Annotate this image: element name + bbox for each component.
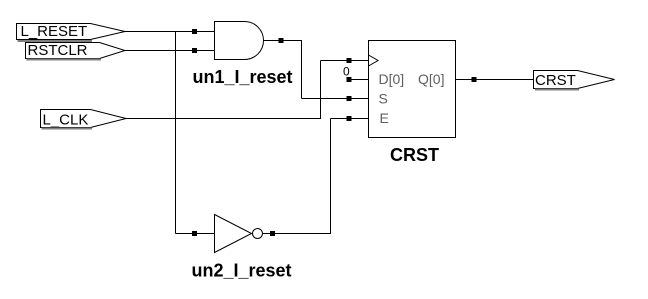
wire S input bbox=[302, 98, 369, 100]
wire E input bbox=[331, 118, 369, 120]
junction dot on inverter output wire bbox=[270, 231, 275, 236]
wire vertical from L_RESET net down to inverter input bbox=[175, 32, 177, 234]
svg-text:Q[0]: Q[0] bbox=[418, 71, 444, 87]
junction dot on S wire bbox=[347, 96, 352, 101]
flip-flop CRST block bbox=[369, 41, 456, 166]
junction dot on E wire bbox=[347, 116, 352, 121]
junction dot on AND output wire bbox=[279, 38, 284, 43]
AND gate un1_I_reset bbox=[193, 22, 293, 88]
wire clock input C bbox=[321, 60, 369, 62]
input port L_RESET bbox=[17, 23, 126, 41]
inverter un2_I_reset bbox=[192, 215, 292, 281]
svg-text:L_RESET: L_RESET bbox=[21, 23, 88, 40]
junction dot on L_RESET wire bbox=[192, 29, 197, 34]
svg-text:un1_I_reset: un1_I_reset bbox=[193, 67, 293, 87]
junction dot on inverter input wire bbox=[192, 231, 197, 236]
clock triangle bbox=[369, 55, 379, 66]
wire Q output to CRST port bbox=[456, 79, 535, 81]
svg-text:0: 0 bbox=[343, 65, 350, 79]
wire RSTCLR to AND input 2 bbox=[124, 50, 215, 52]
junction dot on RSTCLR wire bbox=[192, 48, 197, 53]
wire AND output bbox=[263, 41, 302, 99]
junction dot on clock wire bbox=[347, 58, 352, 63]
svg-text:L_CLK: L_CLK bbox=[43, 112, 89, 129]
svg-text:S: S bbox=[379, 91, 388, 107]
svg-text:RSTCLR: RSTCLR bbox=[28, 42, 88, 59]
svg-text:E: E bbox=[380, 110, 389, 126]
output port CRST bbox=[534, 71, 615, 90]
wire inverter input bbox=[176, 233, 216, 235]
svg-text:CRST: CRST bbox=[390, 145, 439, 165]
wire L_RESET to AND input 1 bbox=[124, 31, 215, 33]
input port L_CLK bbox=[41, 110, 127, 129]
svg-text:CRST: CRST bbox=[535, 72, 576, 89]
junction dot on D wire bbox=[347, 77, 352, 82]
svg-text:un2_I_reset: un2_I_reset bbox=[192, 261, 292, 281]
wire inverter output to vertical riser bbox=[263, 119, 331, 234]
wire D input stub from constant 0 bbox=[347, 79, 369, 81]
wire L_CLK to clock riser bbox=[125, 61, 321, 119]
junction dot on Q output wire bbox=[472, 77, 477, 82]
svg-text:D[0]: D[0] bbox=[379, 71, 405, 87]
input port RSTCLR bbox=[26, 42, 126, 60]
